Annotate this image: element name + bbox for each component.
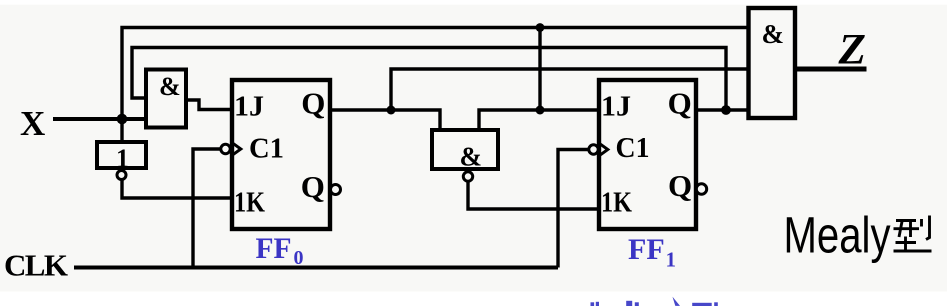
wire: Z output lead xyxy=(797,67,867,72)
FF1 C1 clock wedge xyxy=(599,143,608,156)
wire: X riser and top feedback rail to output AND gate xyxy=(122,28,747,142)
node: junction of X net on X lead xyxy=(117,114,128,125)
NAND gate G3 body xyxy=(432,130,498,169)
svg-text:1: 1 xyxy=(666,248,677,272)
node: junction of X net with FF1 1J line xyxy=(536,106,545,115)
svg-text:&: & xyxy=(460,142,483,172)
wire: X input lead xyxy=(53,117,146,121)
FF0 C1 clock wedge xyxy=(232,142,241,155)
wire: riser from FF1 1J line to top rail xyxy=(538,28,541,111)
caption glyph: Chinese character Xing (type) xyxy=(894,216,932,252)
svg-text:1: 1 xyxy=(116,144,129,173)
node: junction on top rail feeding FF1 1J xyxy=(536,23,545,32)
svg-text:1K: 1K xyxy=(234,188,265,219)
flip-flop FF0 body xyxy=(232,80,330,229)
FF0 Q-bar bubble xyxy=(331,185,341,195)
flip-flop FF1 body xyxy=(599,80,696,229)
svg-text:Q: Q xyxy=(301,169,325,204)
wire: NAND gate G3 input 2 tied to FF1 1J xyxy=(479,110,599,130)
svg-text:C1: C1 xyxy=(616,133,650,164)
wire: CLK input lead xyxy=(74,266,558,270)
svg-text:Q: Q xyxy=(668,168,692,203)
wire: inverter G2 output to FF0 1K xyxy=(122,180,232,199)
svg-text:1K: 1K xyxy=(601,188,632,219)
output AND gate G4 body xyxy=(749,8,796,118)
svg-text:1J: 1J xyxy=(234,92,264,123)
wire: FF0 Q output to NAND gate G3 input 1 xyxy=(330,110,440,130)
node: junction on FF0 Q output xyxy=(387,106,396,115)
FF1 Q-bar bubble xyxy=(696,184,706,194)
wire: FF1 Q output to output AND gate input xyxy=(696,108,747,111)
svg-text:0: 0 xyxy=(294,247,304,269)
svg-text:&: & xyxy=(762,19,785,49)
wire: CLK branch to FF0 C1 xyxy=(193,149,222,268)
svg-text:C1: C1 xyxy=(249,134,284,165)
FF1 C1 clock bubble xyxy=(589,145,598,154)
wire: Q0 rail to output AND gate input xyxy=(391,69,747,110)
svg-text:Q: Q xyxy=(301,86,325,121)
svg-text:CLK: CLK xyxy=(4,248,68,283)
inverter G2 body xyxy=(97,142,146,168)
partial text fragments at bottom edge (cut-off caption) xyxy=(591,297,718,306)
wire: CLK branch to FF1 C1 xyxy=(558,150,590,268)
svg-text:&: & xyxy=(159,72,181,101)
FF0 C1 clock bubble xyxy=(221,144,230,153)
NAND gate G3 output bubble xyxy=(463,172,472,181)
AND gate G1 body xyxy=(146,70,186,128)
svg-text:Z: Z xyxy=(837,27,866,74)
wire: AND gate G1 output to FF0 1J xyxy=(184,100,232,110)
wire: Q1 feedback rail from FF1 Q to AND gate G1 input xyxy=(132,48,726,111)
svg-text:Q: Q xyxy=(668,86,692,121)
inverter G2 output bubble xyxy=(117,171,126,180)
svg-text:X: X xyxy=(20,104,45,143)
svg-text:1J: 1J xyxy=(601,92,631,123)
svg-text:FF: FF xyxy=(628,233,665,266)
svg-text:Mealy: Mealy xyxy=(784,207,891,264)
node: junction on FF1 Q output xyxy=(721,105,731,115)
wire: NAND gate G3 output to FF1 1K xyxy=(468,181,599,209)
svg-text:FF: FF xyxy=(256,233,292,265)
